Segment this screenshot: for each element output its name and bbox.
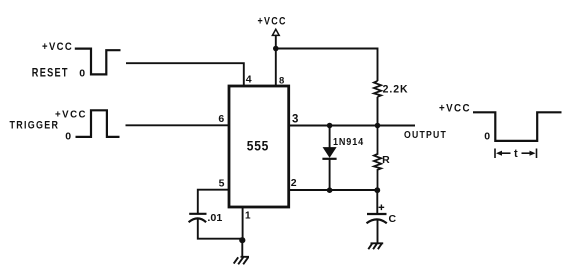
svg-text:t: t [514,148,518,160]
svg-text:1: 1 [245,211,251,222]
svg-text:.01: .01 [207,212,222,224]
wire 2.2K to output node [377,97,379,126]
svg-text:2: 2 [291,177,297,189]
wire R node to capacitor C [376,190,378,214]
svg-text:0: 0 [65,131,71,143]
resistor 2.2K [374,81,381,97]
svg-text:+VCC: +VCC [42,41,73,53]
wire pin 5 [198,190,229,213]
wire +VCC to pin 8 [275,35,277,86]
junction ground node [239,237,245,243]
capacitor .01 [189,214,207,222]
svg-text:6: 6 [218,113,224,125]
capacitor C polarized [367,205,387,224]
ground below pin 1 [234,257,249,265]
svg-text:1N914: 1N914 [333,136,364,148]
svg-text:C: C [389,213,397,225]
junction pin 2 to R [374,187,380,193]
resistor R [374,126,381,191]
svg-text:4: 4 [246,74,252,86]
svg-text:+VCC: +VCC [55,109,87,121]
wire pin 1 [242,207,244,240]
junction pin 2 to diode [327,187,333,193]
wire RESET to pin 4 [126,63,244,86]
IC U1 555 [229,86,289,207]
OUTPUT waveform [473,112,562,141]
svg-text:R: R [382,154,390,166]
wire junction to ground [241,240,243,257]
svg-text:8: 8 [279,76,284,87]
+VCC arrow [272,29,279,35]
svg-text:2.2K: 2.2K [383,84,409,96]
svg-text:0: 0 [484,131,490,143]
svg-text:5: 5 [219,178,225,190]
pulse width dimension t [495,149,537,159]
svg-text:+VCC: +VCC [439,103,471,115]
svg-text:+VCC: +VCC [258,16,287,28]
svg-text:OUTPUT: OUTPUT [404,130,447,141]
svg-text:0: 0 [79,68,85,80]
RESET input waveform [75,49,121,75]
junction pin 3 to diode [327,123,333,129]
wire TRIGGER to pin 6 [126,124,230,126]
svg-text:555: 555 [247,139,269,154]
svg-text:TRIGGER: TRIGGER [10,120,60,132]
svg-text:3: 3 [292,114,298,126]
junction output node at resistor [375,123,381,129]
diode D1 1N914 [322,126,336,191]
wire pin 2 net [289,189,378,191]
junction VCC node [273,46,279,52]
wire VCC node to 2.2K resistor [276,49,378,82]
svg-text:RESET: RESET [32,68,69,80]
ground below C [368,243,383,249]
wire pin 3 OUTPUT net [289,125,416,127]
wire C to ground [377,219,379,243]
wire .01 to ground bus [198,218,243,238]
TRIGGER input waveform [76,110,120,137]
